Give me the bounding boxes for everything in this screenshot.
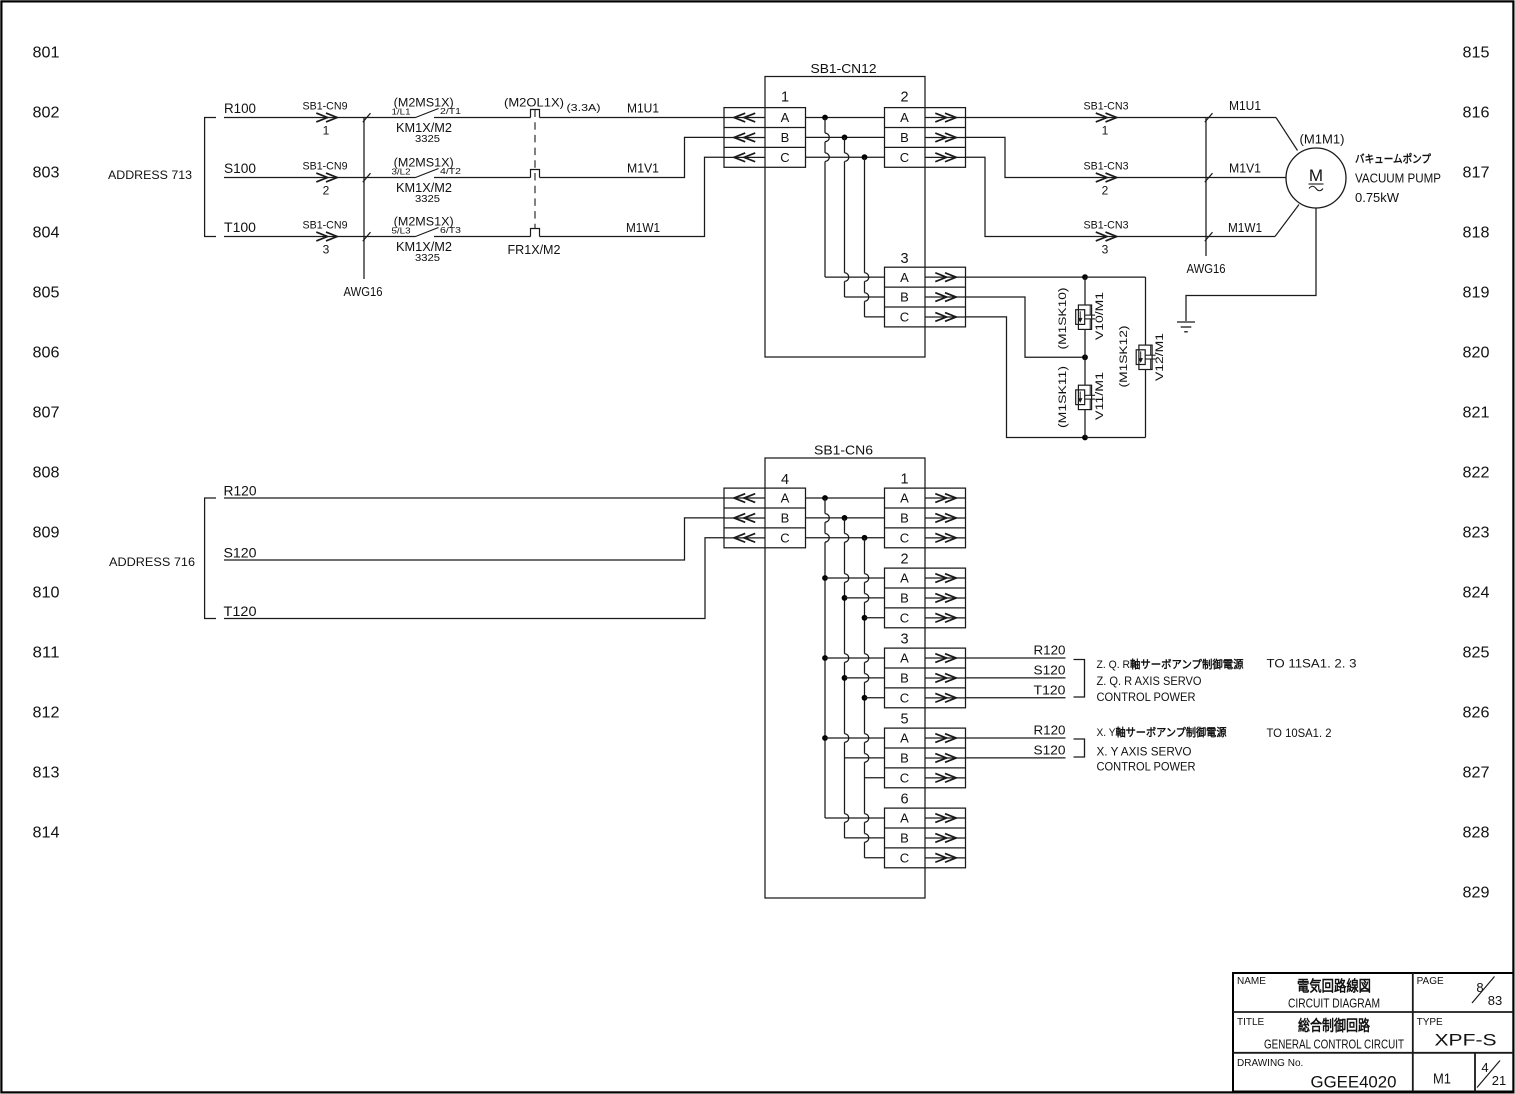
svg-text:C: C [900,690,909,705]
svg-text:1: 1 [781,90,789,106]
surge killer V10/M1 (M1SK10) [1084,277,1086,305]
wire port3-A to surge network [966,276,1086,278]
svg-text:A: A [900,491,909,506]
svg-text:B: B [900,831,909,846]
svg-text:820: 820 [1463,345,1490,362]
connector SB1-CN3 pin 2 [1084,161,1129,198]
wire T120 output (port3-C) [966,697,1066,699]
svg-text:818: 818 [1463,225,1490,242]
svg-text:825: 825 [1463,645,1490,662]
bracket X Y group [1074,739,1085,757]
svg-text:829: 829 [1463,885,1490,902]
connector SB1-CN12 port 3 (pins A,B,C) [885,251,966,327]
svg-text:A: A [781,491,790,506]
svg-text:CONTROL POWER: CONTROL POWER [1097,760,1196,774]
svg-text:KM1X/M2: KM1X/M2 [396,121,452,135]
svg-text:1: 1 [1102,124,1109,138]
connector block SB1-CN6 outline [765,458,925,898]
svg-text:X. Y軸サーボアンプ制御電源: X. Y軸サーボアンプ制御電源 [1097,725,1227,739]
svg-text:A: A [900,731,909,746]
svg-text:V12/M1: V12/M1 [1154,333,1166,381]
wire A taps to ports 2,3,5 [825,578,885,738]
svg-text:813: 813 [33,765,60,782]
wire port1-A to port2-A [806,117,885,119]
svg-text:804: 804 [33,225,60,242]
connector SB1-CN6 port 5 (pins A,B,C) [885,712,966,788]
wire S120 output (port5-B) [966,757,1066,759]
wire M1U1 to motor [966,117,1277,119]
wire M1W1 to motor [966,157,1276,236]
connector SB1-CN6 port 4 (pins A,B,C) [724,472,806,548]
svg-text:809: 809 [33,525,60,542]
svg-text:A: A [900,110,909,125]
svg-text:M1W1: M1W1 [626,221,660,235]
svg-text:B: B [900,130,909,145]
svg-text:R120: R120 [224,484,257,499]
svg-text:C: C [900,530,909,545]
svg-text:21: 21 [1492,1073,1506,1088]
svg-text:(M1SK10): (M1SK10) [1057,288,1069,350]
motor M1M1 vacuum pump [1286,148,1346,208]
svg-text:1: 1 [323,124,330,138]
svg-text:ADDRESS 716: ADDRESS 716 [109,555,195,569]
svg-text:806: 806 [33,345,60,362]
connector SB1-CN3 pin 1 [1084,101,1129,138]
svg-text:807: 807 [33,405,60,422]
title block [1233,973,1514,1092]
wire port3-B jog down [966,297,1086,357]
wire motor to ground [1186,208,1316,321]
junction dots bus C [862,615,868,701]
svg-text:5/L3: 5/L3 [392,226,411,236]
left margin line numbers 801-814 [33,45,60,842]
overload (M2OL1X) dashed link [534,110,536,229]
svg-text:826: 826 [1463,705,1490,722]
junction dot B [842,135,848,141]
svg-text:S120: S120 [224,546,257,561]
svg-text:4: 4 [781,472,789,488]
svg-text:ADDRESS 713: ADDRESS 713 [108,168,192,182]
connector SB1-CN3 pin 3 [1084,220,1129,257]
wire A to V12 branch [1085,276,1146,278]
wire T100 [224,236,416,238]
wire R100 [224,117,416,119]
wire AWG16 gauge line (left) [363,118,365,280]
connector block SB1-CN12 outline [765,77,925,358]
bus wire C (vertical) [865,538,885,858]
svg-text:C: C [900,850,909,865]
svg-text:R100: R100 [224,101,256,116]
svg-text:805: 805 [33,285,60,302]
svg-text:V10/M1: V10/M1 [1094,292,1106,340]
svg-text:3325: 3325 [415,134,440,145]
svg-text:CIRCUIT DIAGRAM: CIRCUIT DIAGRAM [1288,996,1380,1011]
junction dot C [862,154,868,160]
svg-text:KM1X/M2: KM1X/M2 [396,181,452,195]
connector SB1-CN12 port 2 (pins A,B,C) [885,90,966,168]
svg-text:SB1-CN3: SB1-CN3 [1084,101,1129,113]
svg-text:821: 821 [1463,405,1490,422]
svg-text:SB1-CN3: SB1-CN3 [1084,161,1129,173]
svg-text:A: A [900,811,909,826]
svg-text:3: 3 [323,243,330,257]
wire R120 input [224,497,724,499]
bracket ADDRESS 713 [205,118,216,237]
overload element FR1X/M2 heater row 2 [531,170,540,178]
svg-text:総合制御回路: 総合制御回路 [1298,1017,1371,1035]
svg-text:827: 827 [1463,765,1490,782]
svg-text:A: A [900,270,909,285]
wire M1V1 to motor [966,137,1287,177]
wire port4-C to port1-C [806,537,885,539]
wire A drop to port3-A [825,118,885,278]
connector SB1-CN6 port 6 (pins A,B,C) [885,792,966,868]
wire B drop to port3-B [845,137,885,297]
svg-text:3: 3 [1102,243,1109,257]
svg-text:KM1X/M2: KM1X/M2 [396,240,452,254]
svg-text:XPF-S: XPF-S [1435,1031,1497,1050]
connector SB1-CN12 port 1 (pins A,B,C) [724,90,806,168]
svg-text:2: 2 [900,90,908,106]
junction dot 4A [822,495,828,501]
svg-text:NAME: NAME [1237,976,1266,987]
svg-text:(M1M1): (M1M1) [1300,132,1345,147]
svg-text:SB1-CN9: SB1-CN9 [303,161,348,173]
svg-text:B: B [781,130,790,145]
wire S100 segment 2 [434,177,531,179]
svg-text:801: 801 [33,45,60,62]
svg-text:(M1SK11): (M1SK11) [1057,366,1069,428]
svg-text:C: C [780,530,789,545]
svg-text:C: C [900,150,909,165]
svg-text:C: C [900,310,909,325]
svg-text:4/T2: 4/T2 [440,166,461,176]
contact KM1X/M2 3/L2-4/T2 (M2MS1X) [392,158,462,206]
svg-text:810: 810 [33,585,60,602]
svg-text:GGEE4020: GGEE4020 [1311,1073,1397,1092]
wire C drop to port3-C [865,157,885,317]
svg-text:4: 4 [1481,1060,1488,1075]
svg-text:6/T3: 6/T3 [440,225,461,235]
svg-text:DRAWING No.: DRAWING No. [1237,1058,1303,1069]
junction dot 4B [842,515,848,521]
svg-text:TYPE: TYPE [1417,1017,1443,1028]
svg-text:B: B [900,751,909,766]
svg-text:SB1-CN3: SB1-CN3 [1084,220,1129,232]
svg-text:M1V1: M1V1 [627,162,659,176]
svg-text:823: 823 [1463,525,1490,542]
ground symbol [1177,322,1195,332]
svg-text:SB1-CN9: SB1-CN9 [303,101,348,113]
svg-text:TITLE: TITLE [1237,1017,1265,1028]
svg-text:828: 828 [1463,825,1490,842]
wire C to V12 branch [1085,437,1146,439]
wire S100 [224,177,416,179]
wire port1-B to port2-B [806,136,885,138]
svg-text:M1: M1 [1433,1071,1451,1088]
svg-text:M1V1: M1V1 [1229,162,1261,176]
junction dots bus B [842,595,848,681]
svg-text:TO 10SA1. 2: TO 10SA1. 2 [1267,726,1332,740]
wire S120 input [224,518,724,560]
svg-text:824: 824 [1463,585,1490,602]
overload element FR1X/M2 heater row 3 [531,229,540,237]
svg-text:R120: R120 [1034,644,1066,658]
wire port4-B to port1-B [806,517,885,519]
wire R120 output (port3-A) [966,657,1066,659]
svg-text:822: 822 [1463,465,1490,482]
svg-text:M: M [1309,166,1323,185]
wire T120 input [224,538,724,619]
svg-text:A: A [781,110,790,125]
svg-text:Z. Q. R軸サーボアンプ制御電源: Z. Q. R軸サーボアンプ制御電源 [1097,657,1244,671]
svg-text:AWG16: AWG16 [344,285,383,299]
svg-text:FR1X/M2: FR1X/M2 [508,243,561,257]
wire M1U1 into SB1-CN12 [540,117,725,119]
bus wire B (vertical) [845,518,885,838]
wire M1W1 into SB1-CN12 [540,157,725,236]
svg-text:815: 815 [1463,45,1490,62]
contact KM1X/M2 1/L1-2/T1 (M2MS1X) [392,98,462,146]
svg-text:0.75kW: 0.75kW [1355,191,1399,205]
svg-text:3325: 3325 [415,253,440,264]
svg-text:B: B [900,671,909,686]
connector SB1-CN9 pin 3 [303,220,348,257]
svg-text:V11/M1: V11/M1 [1094,372,1106,420]
wire C taps to ports 2,3,5 [865,618,885,778]
svg-text:A: A [900,651,909,666]
bus wire A (vertical) [825,498,885,818]
surge killer V11/M1 (M1SK11) [1084,357,1086,385]
svg-text:6: 6 [900,792,908,808]
svg-text:B: B [900,591,909,606]
svg-text:M1U1: M1U1 [627,102,659,116]
svg-text:3: 3 [900,632,908,648]
svg-text:CONTROL POWER: CONTROL POWER [1097,690,1196,704]
wire R100 segment 2 [434,117,531,119]
junction dots bus A [822,575,828,741]
right margin line numbers 815-829 [1463,45,1490,902]
svg-text:T100: T100 [224,220,256,235]
connector SB1-CN9 pin 1 [303,101,348,138]
bracket Z Q R group [1074,660,1085,698]
wire port3-C jog down [966,317,1086,438]
junction dot A [822,115,828,121]
svg-text:S120: S120 [1034,744,1066,758]
svg-text:TO 11SA1. 2. 3: TO 11SA1. 2. 3 [1267,657,1357,671]
connector SB1-CN6 port 3 (pins A,B,C) [885,632,966,708]
svg-text:817: 817 [1463,165,1490,182]
svg-text:Z. Q. R AXIS SERVO: Z. Q. R AXIS SERVO [1097,674,1202,688]
junction dot 4C [862,535,868,541]
svg-text:1/L1: 1/L1 [392,107,411,117]
svg-text:2: 2 [1102,184,1109,198]
svg-text:811: 811 [33,645,60,662]
wire B taps to ports 2,3,5 [845,598,885,758]
svg-text:C: C [900,770,909,785]
svg-text:M1W1: M1W1 [1228,221,1262,235]
connector SB1-CN6 port 2 (pins A,B,C) [885,552,966,628]
svg-text:2: 2 [323,184,330,198]
svg-text:バキュームポンプ: バキュームポンプ [1355,152,1432,166]
connector SB1-CN6 port 1 (pins A,B,C) [885,472,966,548]
svg-text:VACUUM PUMP: VACUUM PUMP [1355,172,1441,186]
wire M1V1 into SB1-CN12 [540,137,725,177]
svg-text:C: C [780,150,789,165]
svg-text:1: 1 [900,472,908,488]
svg-text:5: 5 [900,712,908,728]
svg-text:816: 816 [1463,105,1490,122]
wire AWG16 gauge line (right) [1205,118,1207,257]
svg-text:3/L2: 3/L2 [392,167,411,177]
svg-text:PAGE: PAGE [1417,976,1444,987]
svg-text:SB1-CN9: SB1-CN9 [303,220,348,232]
surge killer V12/M1 (M1SK12) [1145,277,1147,345]
svg-text:T120: T120 [224,604,257,619]
svg-text:808: 808 [33,465,60,482]
svg-text:803: 803 [33,165,60,182]
bracket ADDRESS 716 [205,498,216,619]
svg-text:3325: 3325 [415,194,440,205]
junction dot A (surge) [1082,274,1088,280]
wire port1-C to port2-C [806,156,885,158]
wire port4-A to port1-A [806,497,885,499]
svg-text:S120: S120 [1034,664,1066,678]
svg-text:812: 812 [33,705,60,722]
svg-text:3: 3 [900,251,908,267]
svg-text:GENERAL CONTROL CIRCUIT: GENERAL CONTROL CIRCUIT [1264,1037,1404,1052]
svg-text:B: B [900,290,909,305]
svg-text:AWG16: AWG16 [1187,262,1226,276]
svg-text:2/T1: 2/T1 [440,106,461,116]
svg-text:814: 814 [33,825,60,842]
svg-text:S100: S100 [224,161,256,176]
svg-text:2: 2 [900,552,908,568]
svg-text:電気回路線図: 電気回路線図 [1297,977,1371,995]
junction dot B (surge) [1082,354,1088,360]
svg-text:B: B [900,511,909,526]
wire R120 output (port5-A) [966,737,1066,739]
svg-text:B: B [781,511,790,526]
svg-text:M1U1: M1U1 [1229,99,1261,113]
junction dot C (surge) [1082,435,1088,441]
svg-text:(M1SK12): (M1SK12) [1118,326,1130,388]
wire T100 segment 2 [434,236,531,238]
svg-text:A: A [900,571,909,586]
svg-text:(3.3A): (3.3A) [567,102,601,114]
svg-text:T120: T120 [1034,684,1066,698]
svg-text:819: 819 [1463,285,1490,302]
svg-text:C: C [900,610,909,625]
svg-text:SB1-CN6: SB1-CN6 [814,444,873,458]
svg-text:R120: R120 [1034,724,1066,738]
contact KM1X/M2 5/L3-6/T3 (M2MS1X) [392,217,462,265]
svg-text:802: 802 [33,105,60,122]
svg-text:83: 83 [1488,993,1502,1008]
overload element FR1X/M2 heater row 1 [531,110,540,118]
connector SB1-CN9 pin 2 [303,161,348,198]
svg-text:(M2OL1X): (M2OL1X) [504,96,564,110]
svg-text:SB1-CN12: SB1-CN12 [811,62,877,76]
wire S120 output (port3-B) [966,677,1066,679]
svg-text:X. Y AXIS SERVO: X. Y AXIS SERVO [1097,745,1192,759]
